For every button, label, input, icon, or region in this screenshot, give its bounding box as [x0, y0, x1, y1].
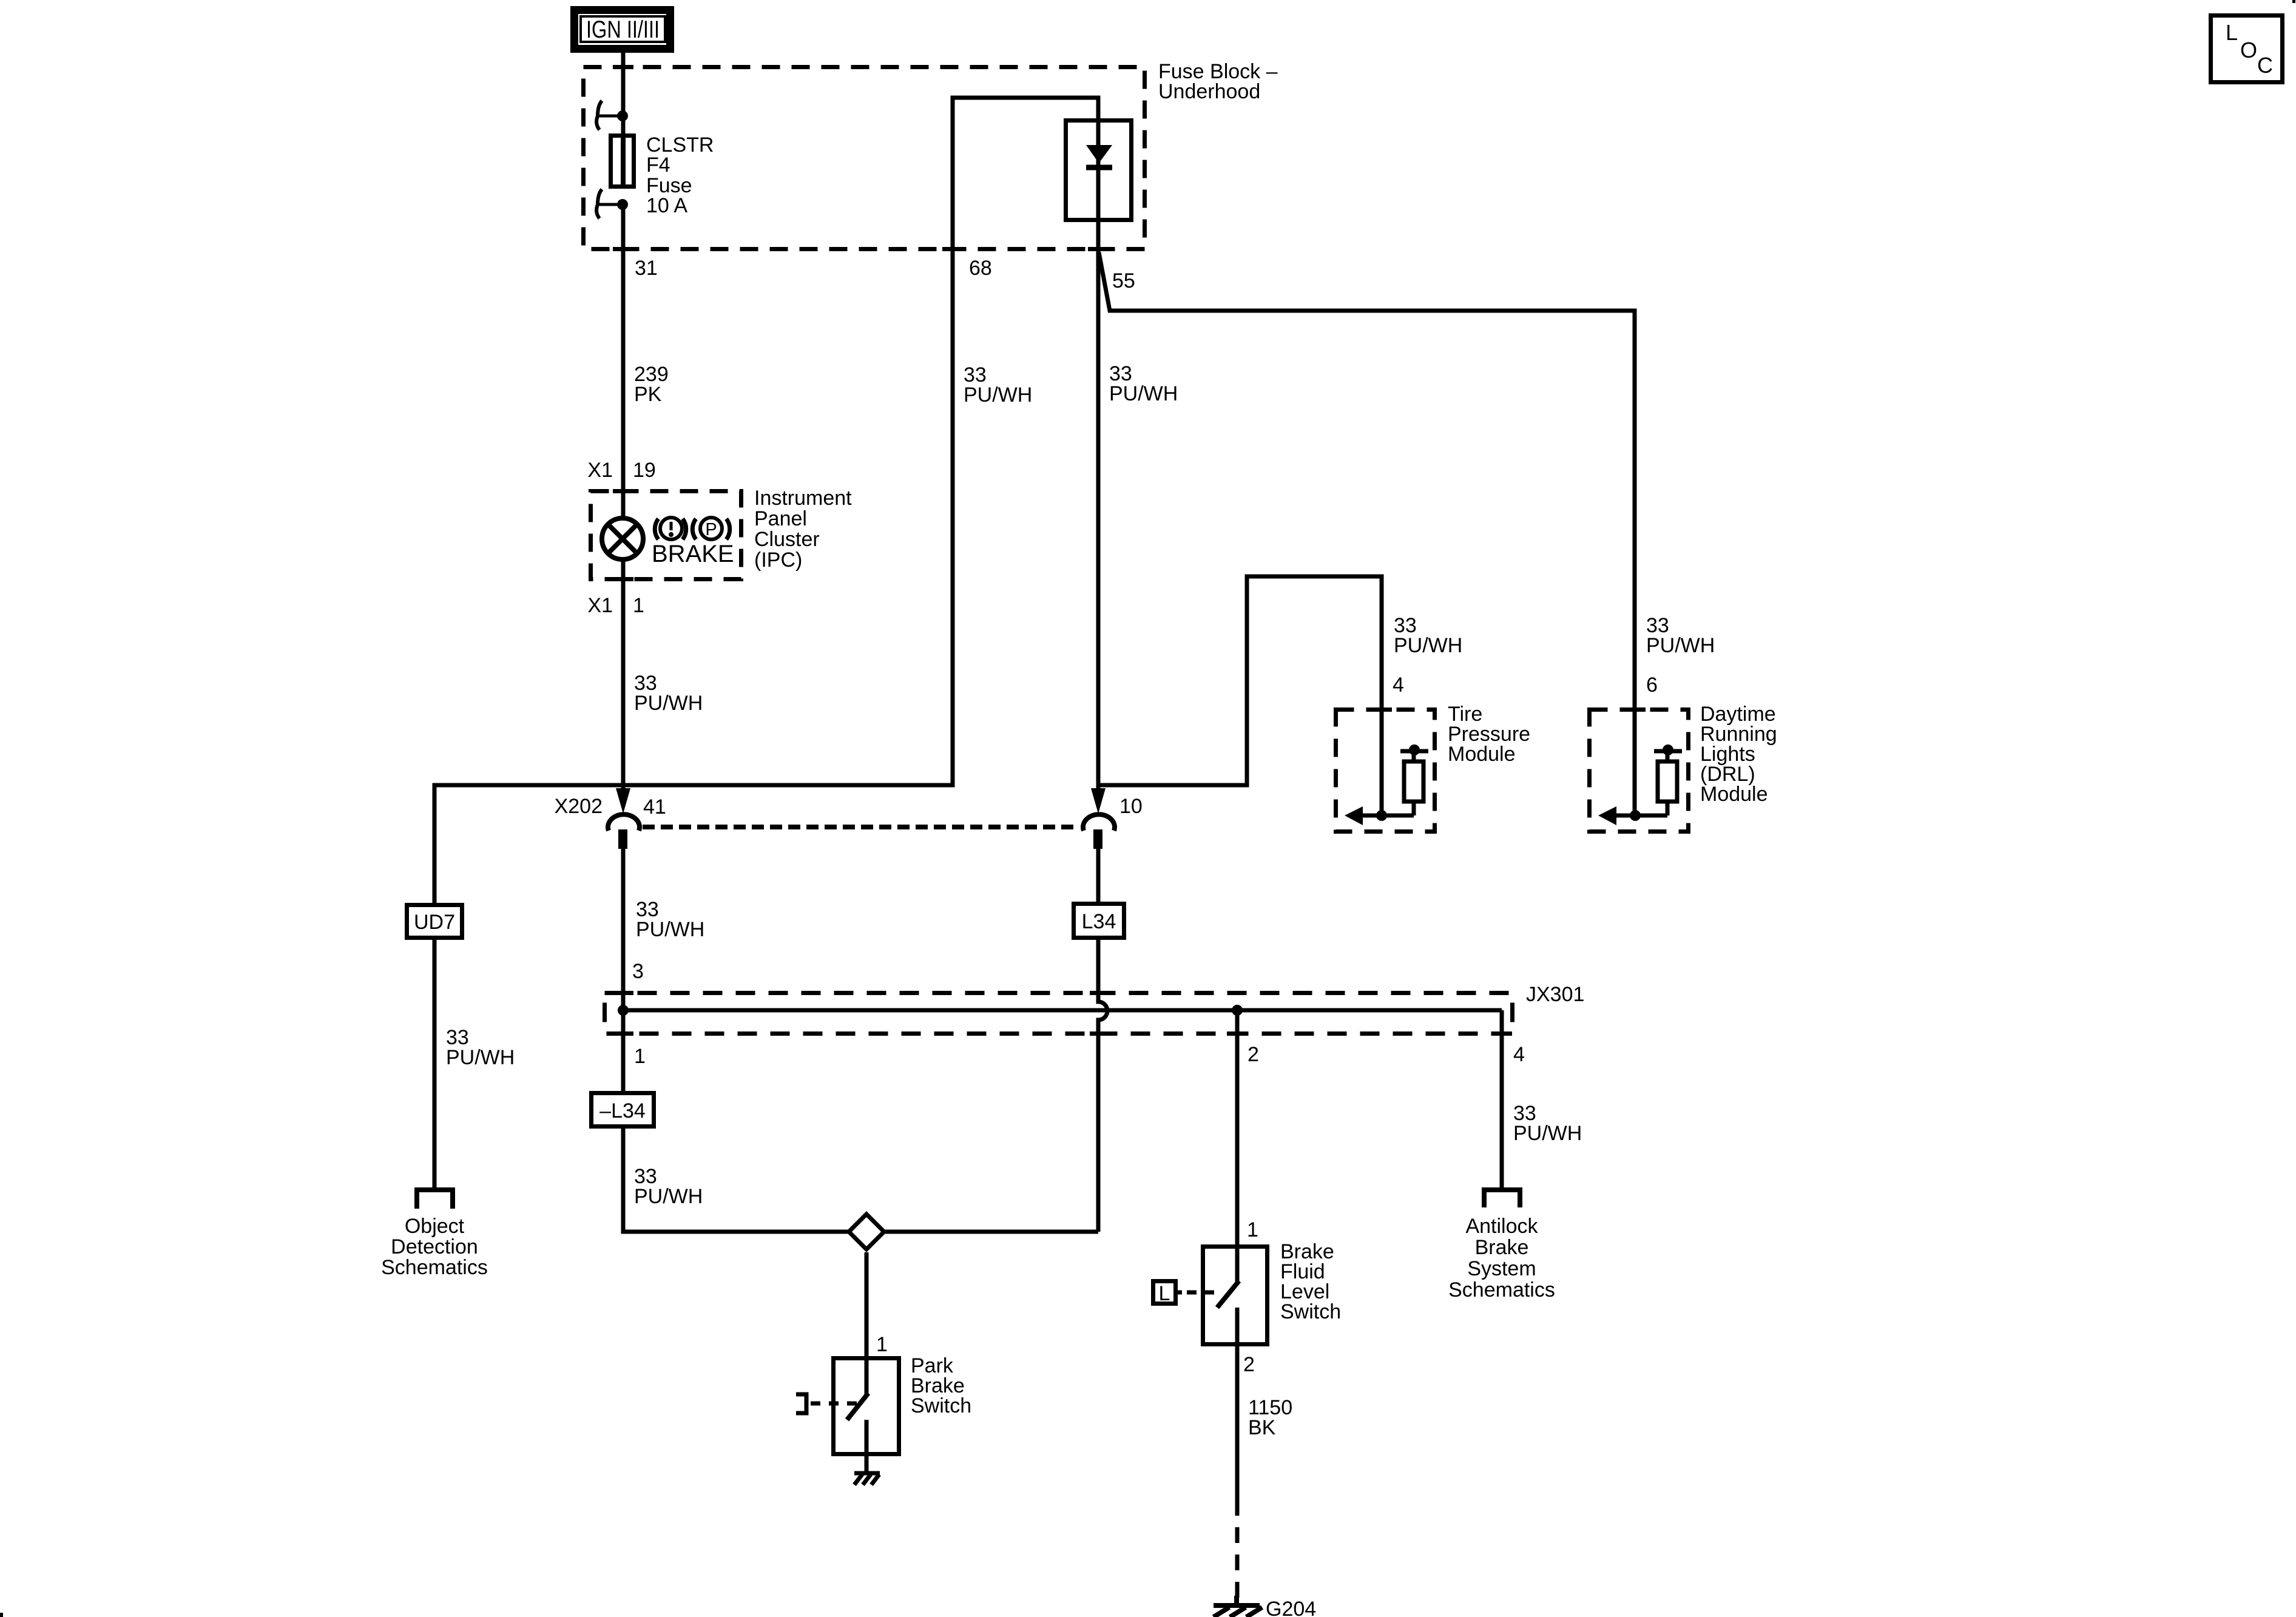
svg-text:X1: X1 [587, 594, 613, 617]
wire IGN to fuse [621, 53, 626, 133]
svg-text:UD7: UD7 [414, 911, 455, 934]
diode D1 [1096, 118, 1101, 251]
wire tick at fuse block top crossing [613, 65, 633, 69]
svg-text:PU/WH: PU/WH [1109, 382, 1178, 405]
wire below X202 10 [1096, 849, 1101, 902]
svg-text:1: 1 [633, 594, 644, 617]
wire pin 55 down [1096, 251, 1101, 788]
svg-text:Module: Module [1448, 743, 1516, 766]
node fuse value label CLSTR F4 Fuse 10 A [646, 133, 714, 217]
node UD7 circuit box [407, 905, 462, 938]
node splice JX301 dashed box [605, 993, 1513, 1034]
node pin 4 boundary tick tire pressure [1371, 707, 1392, 712]
node JX301 pin 4 boundary tick [1491, 1031, 1512, 1036]
node wire label 239 PK [634, 363, 669, 406]
wire tire pressure branch [1099, 576, 1382, 815]
svg-text:X1: X1 [587, 459, 613, 482]
diode D1 box [1066, 121, 1132, 220]
svg-text:L: L [2226, 20, 2238, 45]
wire JX301 pin 2 to brake fluid level switch [1235, 1010, 1240, 1244]
node L34 circuit box [1074, 904, 1124, 938]
fuse CLSTR F4 lower clip [596, 189, 623, 218]
svg-text:P: P [705, 520, 717, 539]
svg-text:PU/WH: PU/WH [634, 1185, 703, 1208]
svg-text:Schematics: Schematics [381, 1256, 488, 1279]
wire fluid switch to ground dashed [1235, 1527, 1240, 1598]
wire park brake actuator dashes [811, 1402, 857, 1406]
node wire label 33 PU/WH (pin 4) [1513, 1102, 1582, 1145]
svg-text:System: System [1467, 1257, 1536, 1280]
svg-text:4: 4 [1393, 673, 1404, 697]
svg-text:Object: Object [405, 1215, 465, 1238]
node off-page connector Object Detection [417, 1190, 453, 1209]
svg-text:Switch: Switch [1280, 1300, 1341, 1323]
wire top horizontal 68 to diode [953, 98, 1098, 251]
wire tick at JX301 top crossing of L34 wire [1090, 991, 1110, 995]
svg-text:–L34: –L34 [599, 1099, 646, 1122]
svg-text:1: 1 [876, 1333, 888, 1356]
wire X202 dashed connector line [643, 825, 1079, 829]
svg-text:G204: G204 [1266, 1598, 1316, 1617]
node connector X1 pin 19 [587, 459, 655, 482]
node wire label 33 PU/WH (tire) [1394, 614, 1462, 657]
node page artifact top right [2292, 0, 2295, 3]
svg-text:68: 68 [969, 257, 992, 280]
svg-text:31: 31 [635, 257, 658, 280]
svg-text:X202: X202 [555, 795, 603, 818]
fuse block underhood dashed box [584, 67, 1145, 249]
wire fluid switch to ground solid [1235, 1346, 1240, 1516]
node X202 terminal 41 (arrow, socket, pin) [608, 788, 640, 849]
node tire pressure module resistor and arrow [1345, 744, 1428, 825]
ground park brake [854, 1473, 880, 1485]
svg-text:Cluster: Cluster [754, 528, 820, 551]
wire pin 68 down and across to UD7 [434, 251, 953, 903]
wire tick at JX301 bottom crossing of L34 wire [1090, 1031, 1110, 1036]
wire -L34 down to park brake run [623, 1129, 1098, 1232]
switch S2 brake fluid level box [1203, 1247, 1268, 1345]
svg-text:41: 41 [643, 795, 666, 819]
svg-text:4: 4 [1513, 1043, 1525, 1066]
node X1 pin 19 boundary tick [613, 489, 633, 493]
node wire label 33 PU/WH (-L34) [634, 1165, 703, 1208]
svg-text:PU/WH: PU/WH [1394, 634, 1462, 657]
wire pin 55 branch to DRL module [1099, 252, 1635, 815]
svg-text:BRAKE: BRAKE [652, 541, 734, 567]
node wire label 33 PU/WH (UD7) [446, 1026, 515, 1069]
node LOC legend box [2211, 16, 2283, 83]
svg-text:(IPC): (IPC) [754, 549, 802, 572]
switch S1 park brake box [834, 1359, 899, 1454]
node JX301 pin 3 boundary tick [613, 991, 633, 995]
lamp BRAKE indicator [621, 489, 626, 518]
node off-page connector Antilock [1484, 1190, 1520, 1207]
node junction at JX301 pin 2 [1232, 1005, 1243, 1016]
node splice diamond [849, 1214, 884, 1249]
node DRL module label [1700, 703, 1777, 806]
wire below X202 41 [621, 849, 626, 1010]
node Fuse Block label [1158, 60, 1278, 103]
fuse CLSTR F4 upper clip [596, 101, 623, 130]
svg-text:Schematics: Schematics [1448, 1278, 1555, 1301]
junction fuse F4 top terminal [617, 110, 628, 121]
svg-text:C: C [2257, 53, 2273, 78]
node X1 pin 1 boundary tick [613, 577, 633, 581]
node wire label 33 PU/WH (pin 68) [964, 363, 1032, 407]
node park brake actuator bracket [796, 1394, 806, 1413]
wire JX301 splice bus [623, 1008, 1502, 1013]
svg-text:Underhood: Underhood [1158, 80, 1260, 103]
node wire label 33 PU/WH (IPC out) [634, 672, 703, 715]
svg-text:L34: L34 [1082, 910, 1116, 933]
svg-text:PU/WH: PU/WH [446, 1046, 515, 1069]
node X202 terminal 10 (arrow, socket, pin) [1083, 788, 1115, 849]
node junction at JX301 left [618, 1005, 629, 1016]
instrument panel cluster IPC dashed box [591, 491, 741, 579]
node page artifact bottom left [0, 1613, 3, 1617]
node DRL module dashed box [1590, 710, 1689, 832]
node park brake switch label [911, 1354, 971, 1417]
svg-text:PU/WH: PU/WH [964, 383, 1032, 407]
node tire pressure module label [1448, 703, 1530, 766]
junction fuse F4 bottom terminal [617, 199, 628, 210]
node -L34 circuit box [592, 1093, 654, 1127]
svg-text:IGN II/III: IGN II/III [586, 16, 660, 43]
svg-text:19: 19 [633, 459, 656, 482]
wire fuse to pin 31 [621, 204, 626, 489]
node IGN II/III power feed box [575, 10, 670, 49]
svg-text:JX301: JX301 [1526, 983, 1584, 1006]
wire JX301 to pin 4 drop [1500, 1010, 1504, 1187]
svg-text:1: 1 [1247, 1218, 1258, 1241]
svg-text:PU/WH: PU/WH [1513, 1122, 1582, 1145]
svg-text:PU/WH: PU/WH [636, 918, 704, 941]
svg-text:10 A: 10 A [646, 194, 687, 217]
node L actuator box [1153, 1281, 1183, 1306]
svg-text:F4: F4 [646, 154, 670, 177]
switch S2 brake fluid level contacts [1217, 1244, 1239, 1346]
ground G204 [1214, 1596, 1262, 1617]
svg-text:Detection: Detection [391, 1235, 478, 1258]
svg-text:BK: BK [1248, 1416, 1276, 1439]
node pin 6 boundary tick DRL [1625, 707, 1646, 712]
svg-text:O: O [2240, 38, 2257, 62]
svg-text:Antilock: Antilock [1465, 1215, 1538, 1238]
svg-text:PU/WH: PU/WH [634, 692, 703, 715]
node pin 31 boundary tick [613, 247, 633, 251]
wire UD7 down [433, 940, 437, 1187]
svg-text:Brake: Brake [1475, 1236, 1529, 1259]
svg-text:Switch: Switch [911, 1394, 971, 1417]
svg-text:1: 1 [634, 1045, 646, 1068]
node DRL module resistor and arrow [1598, 744, 1682, 825]
fuse CLSTR F4 body [611, 136, 634, 187]
node wire label 33 PU/WH (X202 41 to JX301) [636, 898, 704, 941]
node pin 68 boundary tick [942, 247, 963, 251]
node pin 55 boundary tick [1088, 247, 1109, 251]
node wire label 1150 BK [1248, 1396, 1292, 1439]
svg-text:Panel: Panel [754, 507, 807, 530]
node connector X1 pin 1 [587, 594, 644, 617]
node JX301 pin 2 boundary tick [1227, 1031, 1248, 1036]
node tire pressure module dashed box [1336, 710, 1435, 832]
node IPC label [754, 487, 852, 572]
svg-text:10: 10 [1119, 795, 1143, 818]
svg-text:L: L [1159, 1282, 1170, 1305]
svg-text:Module: Module [1700, 783, 1768, 806]
wire pin 1 down to -L34 [621, 1010, 626, 1091]
node brake warning icons (!)(P) [655, 518, 730, 539]
wire diamond to park brake switch [865, 1252, 869, 1356]
svg-text:3: 3 [632, 960, 644, 983]
node brake fluid level switch label [1280, 1240, 1341, 1323]
svg-text:2: 2 [1243, 1353, 1255, 1376]
svg-text:55: 55 [1112, 269, 1135, 292]
wire fluid actuator dashes [1187, 1291, 1217, 1295]
svg-text:Instrument: Instrument [754, 487, 852, 510]
node wire label 33 PU/WH (pin 55) [1109, 362, 1178, 405]
node JX301 pin 1 boundary tick [613, 1031, 633, 1036]
svg-text:PU/WH: PU/WH [1646, 634, 1715, 657]
wire L34 down with hop over JX301 line [1098, 940, 1107, 1232]
switch S1 park brake contacts [847, 1356, 868, 1472]
node wire label 33 PU/WH (DRL) [1646, 614, 1715, 657]
svg-text:6: 6 [1646, 673, 1658, 697]
wire IPC to X202 [621, 581, 626, 788]
svg-text:PK: PK [634, 383, 662, 406]
svg-text:2: 2 [1248, 1043, 1259, 1066]
